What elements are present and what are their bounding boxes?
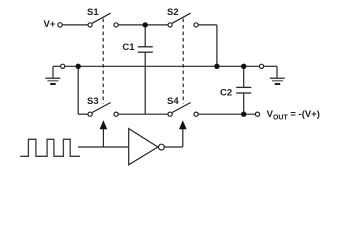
svg-text:S3: S3 [87, 96, 99, 107]
svg-text:S4: S4 [167, 96, 179, 107]
svg-text:C1: C1 [122, 42, 135, 53]
svg-text:VOUT = -(V+): VOUT = -(V+) [267, 109, 320, 121]
svg-text:S2: S2 [167, 7, 179, 18]
svg-text:V+: V+ [44, 19, 56, 30]
svg-text:S1: S1 [87, 7, 99, 18]
svg-text:C2: C2 [220, 88, 232, 99]
